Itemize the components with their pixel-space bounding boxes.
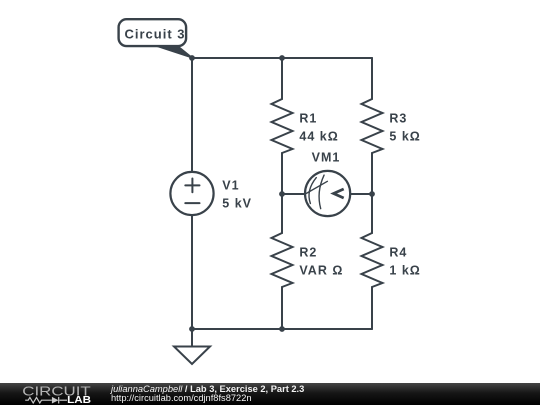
- wire top bus (node A to R3 top corner): [192, 57, 372, 59]
- wire VM1 right lead: [350, 193, 372, 195]
- footer credit text: [111, 385, 304, 404]
- resistor R2: [272, 233, 293, 287]
- node junction bottom-left: [189, 326, 195, 332]
- wire R2 bottom lead: [281, 287, 283, 329]
- node junction meter-right: [369, 191, 375, 197]
- svg-text:LAB: LAB: [67, 395, 91, 405]
- svg-text:R1: R1: [299, 111, 317, 125]
- svg-text:1 kΩ: 1 kΩ: [389, 263, 420, 277]
- wire R3 top lead: [371, 58, 373, 99]
- wire R1-R2 middle segment: [281, 153, 283, 233]
- svg-text:R2: R2: [299, 245, 317, 259]
- resistor R4: [362, 233, 383, 287]
- wire R1 top lead: [281, 58, 283, 99]
- resistor R3: [362, 99, 383, 153]
- wire bottom bus: [192, 328, 372, 330]
- svg-text:5 kΩ: 5 kΩ: [389, 129, 420, 143]
- ground: [174, 329, 210, 364]
- wire R4 bottom lead: [371, 287, 373, 329]
- svg-text:44 kΩ: 44 kΩ: [299, 129, 338, 143]
- svg-text:Circuit 3: Circuit 3: [125, 27, 186, 42]
- svg-text:V1: V1: [222, 179, 239, 193]
- voltmeter VM1: [305, 171, 350, 216]
- callout label "Circuit 3": [119, 19, 193, 58]
- svg-text:R3: R3: [389, 111, 407, 125]
- node junction meter-left: [279, 191, 285, 197]
- voltage source V1: [170, 172, 213, 215]
- svg-text:R4: R4: [389, 245, 407, 259]
- svg-text:VAR Ω: VAR Ω: [299, 263, 343, 277]
- node junction bottom-middle: [279, 326, 285, 332]
- node junction top-left: [189, 55, 195, 61]
- svg-text:VM1: VM1: [312, 151, 341, 165]
- node junction top-middle: [279, 55, 285, 61]
- wire V1 bottom lead: [191, 215, 193, 329]
- wire R3-R4 middle segment: [371, 153, 373, 233]
- CircuitLab logo: [0, 383, 110, 405]
- resistor R1: [272, 99, 293, 153]
- footer bar: [0, 383, 540, 405]
- wire VM1 left lead: [282, 193, 305, 195]
- svg-text:5 kV: 5 kV: [222, 197, 252, 211]
- wire V1 top lead: [191, 58, 193, 172]
